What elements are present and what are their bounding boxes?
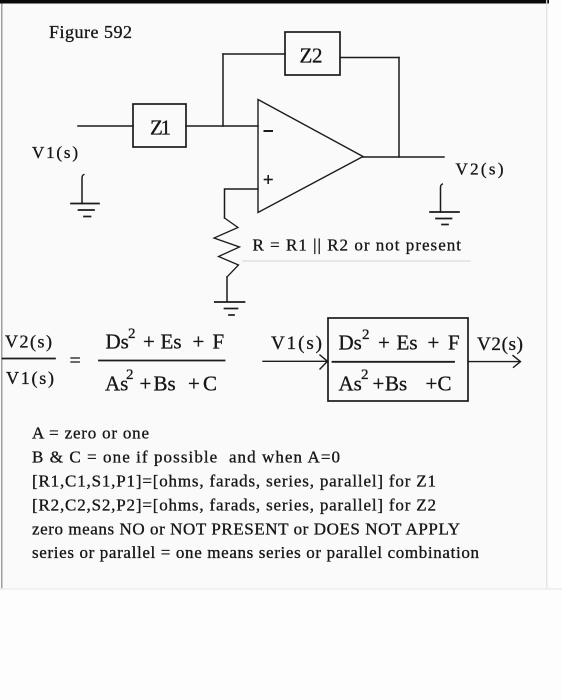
wire: Z1 output to op-amp inverting input bbox=[186, 125, 258, 127]
op-amp U1 bbox=[258, 100, 363, 213]
impedance Z2 bbox=[285, 32, 340, 75]
wire: V1 input to Z1 bbox=[78, 125, 133, 127]
svg-text:=: = bbox=[70, 350, 81, 372]
svg-text:Z2: Z2 bbox=[300, 44, 323, 68]
wire: non-inverting input to resistor R bbox=[225, 189, 259, 218]
equation: V2(s)/V1(s) ratio label bbox=[3, 332, 56, 390]
svg-text:[R2,C2,S2,P2]=[ohms, farads, s: [R2,C2,S2,P2]=[ohms, farads, series, par… bbox=[32, 495, 436, 514]
block diagram output arrow bbox=[468, 356, 521, 368]
resistor R bbox=[214, 218, 240, 277]
svg-text:zero means NO or NOT PRESENT o: zero means NO or NOT PRESENT or DOES NOT… bbox=[32, 519, 460, 538]
svg-text:As2+Bs+C: As2+Bs+C bbox=[339, 367, 452, 396]
svg-text:A = zero or one: A = zero or one bbox=[32, 424, 149, 443]
ground below V1(s) bbox=[71, 175, 99, 217]
svg-text:Figure 592: Figure 592 bbox=[49, 22, 132, 42]
op-amp non-inverting input marker + bbox=[265, 176, 273, 183]
svg-text:B & C = one if possible and w: B & C = one if possible and when A=0 bbox=[32, 448, 340, 467]
svg-text:series or parallel = one means: series or parallel = one means series or… bbox=[32, 543, 480, 562]
wire: Z2 to feedback right bbox=[340, 57, 399, 59]
block diagram transfer function block bbox=[328, 318, 468, 401]
block fraction bar bbox=[333, 361, 455, 363]
wire: feedback top to Z2 bbox=[223, 53, 285, 55]
op-amp inverting input marker - bbox=[265, 130, 273, 132]
wire: feedback down to output node bbox=[398, 58, 400, 158]
wire: feedback tap up from inverting input node bbox=[222, 54, 224, 126]
svg-text:[R1,C1,S1,P1]=[ohms, farads, s: [R1,C1,S1,P1]=[ohms, farads, series, par… bbox=[32, 472, 436, 491]
block diagram input arrow bbox=[263, 355, 328, 369]
ground below V2(s) bbox=[430, 184, 459, 225]
wire: resistor R to ground bbox=[226, 277, 228, 302]
svg-text:V2(s): V2(s) bbox=[477, 334, 523, 355]
svg-text:Z1: Z1 bbox=[150, 116, 171, 140]
ground below resistor R bbox=[215, 302, 245, 315]
svg-text:R = R1 || R2 or not present: R = R1 || R2 or not present bbox=[253, 236, 462, 255]
equation: fraction bar bbox=[99, 360, 225, 362]
impedance Z1 bbox=[133, 104, 186, 147]
wire: op-amp output to V2 bbox=[363, 156, 444, 158]
